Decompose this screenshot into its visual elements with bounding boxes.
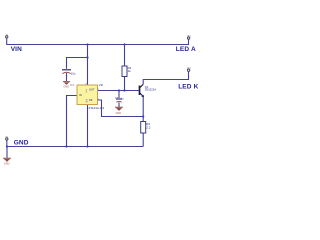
svg-text:1k: 1k xyxy=(128,69,132,73)
svg-text:LED A: LED A xyxy=(176,46,196,53)
svg-text:IN: IN xyxy=(79,93,82,97)
svg-text:GND: GND xyxy=(4,163,10,166)
svg-text:10u: 10u xyxy=(71,71,76,75)
svg-text:FB: FB xyxy=(89,98,93,102)
svg-text:GND: GND xyxy=(116,112,122,115)
svg-text:VIN: VIN xyxy=(11,46,22,53)
svg-text:LED K: LED K xyxy=(178,83,198,90)
svg-text:IC1: IC1 xyxy=(70,83,75,87)
svg-text:VD: VD xyxy=(99,83,103,87)
svg-text:GND: GND xyxy=(63,86,69,89)
svg-text:LT1121A-3.3: LT1121A-3.3 xyxy=(87,106,104,110)
svg-text:OUT: OUT xyxy=(89,88,95,92)
svg-text:2.2: 2.2 xyxy=(146,125,151,129)
svg-text:GND: GND xyxy=(14,139,29,146)
svg-text:2N2222A: 2N2222A xyxy=(145,88,156,92)
